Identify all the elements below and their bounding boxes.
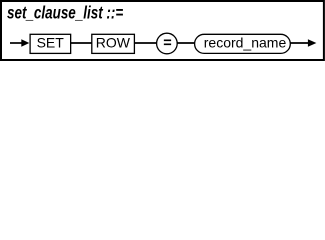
wire exit [290, 42, 308, 44]
svg-text:SET: SET [37, 35, 65, 51]
svg-text:record_name: record_name [204, 35, 287, 51]
wire ROW to = [134, 42, 157, 44]
frame border [1, 1, 324, 60]
svg-text:ROW: ROW [96, 35, 131, 51]
wire left entry [10, 42, 23, 44]
wire SET to ROW [71, 42, 92, 44]
terminal box SET [30, 34, 71, 53]
nonterminal stadium record_name [195, 34, 291, 53]
wire = to record_name [177, 42, 195, 44]
svg-text:set_clause_list ::=: set_clause_list ::= [7, 4, 123, 23]
arrow head left [21, 39, 29, 47]
terminal circle = [157, 33, 178, 54]
terminal box ROW [92, 34, 135, 53]
arrow head right [308, 39, 317, 47]
svg-text:=: = [163, 36, 171, 52]
